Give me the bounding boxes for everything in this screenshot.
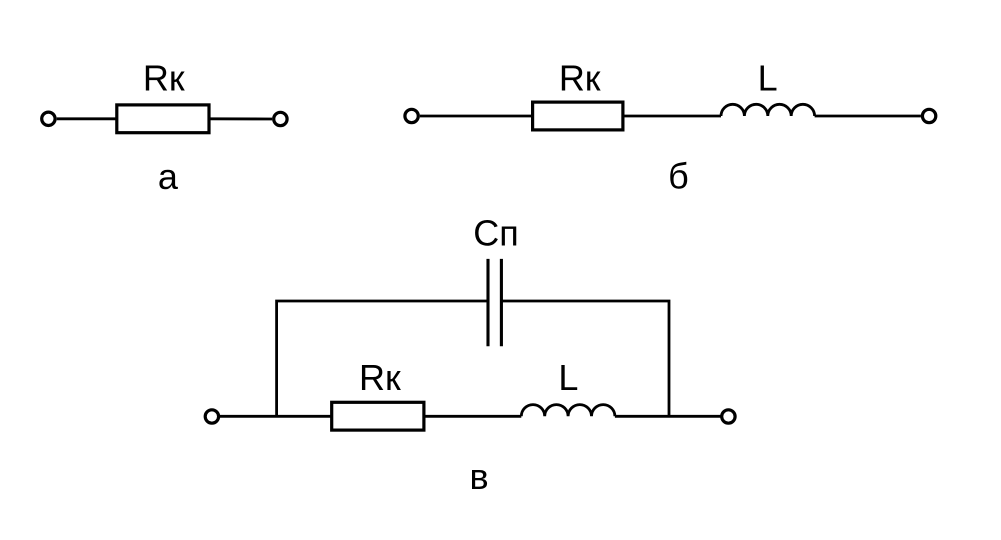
wire — [209, 117, 272, 120]
circuit a : terminal left — [42, 112, 55, 125]
svg-text:L: L — [558, 357, 578, 398]
wire — [815, 115, 921, 118]
svg-text:а: а — [158, 156, 179, 197]
circuit v : terminal left — [205, 410, 218, 423]
wire — [420, 115, 533, 118]
wire : left vertical — [277, 301, 488, 416]
wire : top rail right — [501, 301, 669, 416]
svg-text:Rк: Rк — [359, 357, 401, 398]
circuit b : terminal left — [405, 109, 418, 122]
circuit b : terminal right — [922, 109, 935, 122]
svg-text:в: в — [469, 456, 488, 497]
capacitor Сп : left plate — [486, 259, 489, 346]
capacitor Сп : right plate — [500, 259, 503, 346]
wire — [615, 415, 722, 418]
resistor Rк (v) — [332, 402, 424, 430]
wire — [57, 117, 117, 120]
svg-text:Сп: Сп — [473, 212, 519, 253]
inductor L (v) — [521, 405, 615, 417]
circuit a : terminal right — [274, 112, 287, 125]
wire — [624, 115, 721, 118]
svg-text:Rк: Rк — [559, 57, 601, 98]
svg-text:Rк: Rк — [143, 58, 185, 99]
resistor Rк (b) — [533, 102, 623, 130]
svg-text:б: б — [668, 156, 689, 197]
wire — [219, 415, 332, 418]
resistor Rк (a) — [117, 105, 209, 133]
circuit v : terminal right — [722, 410, 735, 423]
svg-text:L: L — [758, 57, 778, 98]
inductor L (b) — [721, 104, 815, 116]
wire — [425, 415, 521, 418]
